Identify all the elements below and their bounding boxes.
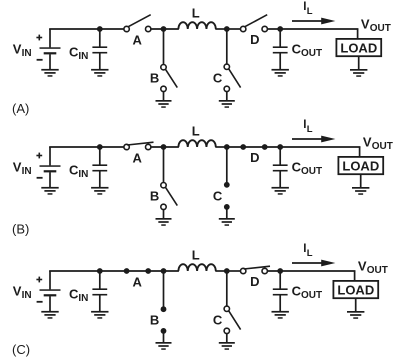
- svg-text:LOAD: LOAD: [337, 282, 374, 297]
- svg-text:A: A: [133, 151, 143, 166]
- svg-text:L: L: [192, 248, 200, 263]
- node: COUT junction (A): [277, 26, 283, 32]
- wire: load to ground (C): [355, 298, 357, 312]
- node: COUT junction (B): [277, 144, 283, 150]
- svg-text:OUT: OUT: [301, 290, 322, 301]
- svg-text:D: D: [250, 150, 259, 165]
- inductor L (A): [178, 22, 215, 29]
- label VOUT (C): [358, 259, 388, 277]
- svg-text:IN: IN: [78, 293, 88, 304]
- svg-text:L: L: [192, 124, 200, 139]
- ground (battery) (B): [41, 187, 58, 195]
- label COUT (A): [292, 42, 323, 60]
- svg-text:LOAD: LOAD: [340, 40, 377, 55]
- arrow: inductor current IL (A): [292, 18, 335, 25]
- label C (B): [213, 188, 223, 203]
- svg-text:V: V: [13, 159, 22, 174]
- label B (C): [150, 313, 159, 328]
- svg-text:(C): (C): [12, 342, 30, 357]
- svg-text:C: C: [213, 188, 223, 203]
- svg-text:V: V: [358, 259, 367, 274]
- wire: output rail (C): [227, 271, 356, 281]
- label C (C): [213, 312, 223, 327]
- label COUT (B): [292, 160, 323, 178]
- battery VIN (B): [40, 147, 61, 188]
- switch A (C): [124, 268, 151, 274]
- label B (A): [150, 71, 159, 86]
- ground (load) (C): [347, 311, 364, 319]
- node: L / switch C / switch D junction (B): [224, 144, 230, 150]
- label IL (A): [303, 1, 313, 17]
- battery VIN plus sign (C): [36, 277, 42, 283]
- capacitor COUT (B): [273, 147, 288, 188]
- node: COUT junction (C): [277, 268, 283, 274]
- svg-text:OUT: OUT: [372, 141, 393, 152]
- label VIN (B): [13, 159, 32, 177]
- svg-text:IN: IN: [22, 48, 32, 59]
- node: VIN/CIN junction (C): [97, 268, 103, 274]
- ground (COUT) (A): [272, 69, 289, 77]
- svg-text:V: V: [363, 135, 372, 150]
- svg-text:OUT: OUT: [370, 23, 391, 34]
- battery VIN minus sign (B): [37, 177, 43, 179]
- ground (switch C) (C): [219, 342, 235, 350]
- svg-text:IN: IN: [22, 290, 32, 301]
- switch D (B): [240, 144, 267, 150]
- label L (C): [192, 248, 200, 263]
- ground (load) (A): [350, 69, 367, 77]
- load box (B): [338, 157, 383, 174]
- svg-text:V: V: [13, 283, 22, 298]
- label L (A): [192, 6, 200, 21]
- switch C (B): [224, 182, 230, 219]
- label A (A): [133, 33, 143, 48]
- wire: input rail (B): [49, 146, 179, 148]
- svg-text:C: C: [213, 312, 223, 327]
- wire: input rail (C): [49, 270, 179, 272]
- arrow: inductor current IL (B): [292, 136, 335, 143]
- wire: node to switch B (B): [163, 147, 165, 183]
- ground (CIN) (C): [91, 311, 108, 319]
- svg-text:C: C: [213, 70, 223, 85]
- wire: node to switch C (C): [226, 271, 228, 306]
- switch A (B): [124, 142, 154, 150]
- ground (battery) (A): [41, 69, 58, 77]
- load box (C): [333, 281, 378, 298]
- node: L / switch C / switch D junction (C): [224, 268, 230, 274]
- inductor L (C): [178, 264, 215, 271]
- battery VIN minus sign (A): [37, 59, 43, 61]
- ground (battery) (C): [41, 311, 58, 319]
- svg-text:(B): (B): [12, 222, 29, 237]
- node: L / switch C / switch D junction (A): [224, 26, 230, 32]
- wire: node to switch B (C): [163, 271, 165, 309]
- ground (switch C) (B): [219, 218, 235, 226]
- label CIN (A): [69, 45, 88, 63]
- wire: input rail (A): [49, 28, 179, 30]
- ground (CIN) (B): [91, 187, 108, 195]
- label VOUT (B): [363, 135, 393, 153]
- arrow: inductor current IL (C): [292, 260, 335, 267]
- ground (CIN) (A): [91, 69, 108, 77]
- ground (COUT) (B): [272, 187, 289, 195]
- svg-text:V: V: [361, 17, 370, 32]
- svg-text:(A): (A): [12, 101, 29, 116]
- label VIN (A): [13, 41, 32, 59]
- label D (B): [250, 150, 259, 165]
- svg-text:A: A: [133, 33, 143, 48]
- label A (B): [133, 151, 143, 166]
- label VOUT (A): [361, 17, 391, 34]
- label IL (C): [303, 243, 313, 259]
- node: VIN/CIN junction (A): [97, 26, 103, 32]
- capacitor CIN (B): [92, 147, 107, 188]
- ground (switch B) (C): [156, 342, 172, 350]
- switch A (A): [124, 15, 151, 32]
- wire: output rail (B): [227, 147, 361, 157]
- switch D (A): [241, 15, 268, 32]
- svg-text:L: L: [192, 6, 200, 21]
- inductor L (B): [178, 140, 215, 147]
- switch B (A): [161, 65, 178, 101]
- capacitor COUT (C): [273, 271, 288, 312]
- label IL (B): [303, 119, 313, 135]
- switch D (C): [241, 266, 271, 273]
- label VIN (C): [13, 283, 32, 301]
- svg-text:OUT: OUT: [367, 265, 388, 276]
- label CIN (C): [69, 287, 88, 305]
- svg-text:B: B: [150, 71, 159, 86]
- node: switch A / L / switch B junction (C): [161, 268, 167, 274]
- battery VIN plus sign (B): [36, 153, 42, 159]
- battery VIN (C): [40, 271, 61, 312]
- svg-text:A: A: [133, 275, 143, 290]
- switch C (A): [224, 64, 241, 101]
- wire: node to switch B (A): [163, 29, 165, 65]
- capacitor CIN (A): [92, 29, 107, 70]
- label C (A): [213, 70, 223, 85]
- load box (A): [336, 39, 381, 56]
- svg-text:IN: IN: [78, 169, 88, 180]
- label D (C): [250, 274, 259, 289]
- wire: load to ground (B): [360, 174, 362, 188]
- switch C (C): [224, 306, 241, 343]
- wire: output rail (A): [227, 29, 359, 39]
- label A (C): [133, 275, 143, 290]
- switch B (B): [161, 183, 178, 219]
- capacitor CIN (C): [92, 271, 107, 312]
- node: switch A / L / switch B junction (B): [161, 144, 167, 150]
- svg-text:OUT: OUT: [301, 48, 322, 59]
- ground (switch C) (A): [219, 100, 235, 108]
- svg-text:IN: IN: [22, 166, 32, 177]
- battery VIN (A): [40, 29, 61, 70]
- svg-text:OUT: OUT: [301, 166, 322, 177]
- battery VIN plus sign (A): [36, 35, 42, 41]
- node: VIN/CIN junction (B): [97, 144, 103, 150]
- label (A): [12, 101, 29, 116]
- wire: inductor to node (A): [215, 28, 229, 30]
- svg-text:B: B: [150, 189, 159, 204]
- svg-text:V: V: [13, 41, 22, 56]
- switch B (C): [161, 306, 167, 343]
- wire: inductor to node (C): [215, 270, 229, 272]
- wire: node to switch C (B): [226, 147, 228, 185]
- wire: inductor to node (B): [215, 146, 229, 148]
- battery VIN minus sign (C): [37, 301, 43, 303]
- label (C): [12, 342, 30, 357]
- label COUT (C): [292, 284, 323, 302]
- node: switch A / L / switch B junction (A): [161, 26, 167, 32]
- wire: node to switch C (A): [226, 29, 228, 64]
- capacitor COUT (A): [273, 29, 288, 70]
- svg-text:L: L: [307, 248, 313, 259]
- svg-text:B: B: [150, 313, 159, 328]
- label D (A): [250, 32, 259, 47]
- wire: load to ground (A): [358, 56, 360, 70]
- ground (switch B) (A): [156, 100, 172, 108]
- label CIN (B): [69, 163, 88, 181]
- svg-text:LOAD: LOAD: [342, 158, 379, 173]
- svg-text:L: L: [307, 6, 313, 17]
- ground (load) (B): [352, 187, 369, 195]
- svg-text:D: D: [250, 274, 259, 289]
- ground (COUT) (C): [272, 311, 289, 319]
- svg-text:L: L: [307, 124, 313, 135]
- svg-text:IN: IN: [78, 51, 88, 62]
- label B (B): [150, 189, 159, 204]
- svg-text:D: D: [250, 32, 259, 47]
- ground (switch B) (B): [156, 218, 172, 226]
- label (B): [12, 222, 29, 237]
- label L (B): [192, 124, 200, 139]
